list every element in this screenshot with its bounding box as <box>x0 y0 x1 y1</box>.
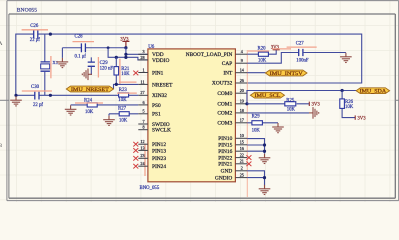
pin 16 PIN16 <box>218 146 247 155</box>
svg-text:10K: 10K <box>345 105 354 110</box>
svg-text:COM0: COM0 <box>217 91 232 97</box>
ground right-facing at COM2 <box>309 107 319 119</box>
power 3V3 right-facing at R26 <box>355 115 366 121</box>
pin 23 PIN23 no-connect <box>133 153 166 162</box>
pin 24 PIN24 no-connect <box>133 161 166 170</box>
power 3V3 left <box>120 38 129 48</box>
svg-text:PIN1: PIN1 <box>152 70 164 76</box>
svg-text:10K: 10K <box>287 108 296 113</box>
svg-text:1: 1 <box>143 67 145 72</box>
pin 6 PS0 <box>138 100 161 109</box>
svg-text:INT: INT <box>223 70 233 76</box>
svg-text:3V3: 3V3 <box>357 117 366 122</box>
svg-text:NRESET: NRESET <box>152 82 173 88</box>
wire INT to port <box>247 72 265 74</box>
svg-text:PIN16: PIN16 <box>218 149 232 155</box>
ground at GNDIO <box>259 185 271 195</box>
svg-text:NBOOT_LOAD_PIN: NBOOT_LOAD_PIN <box>186 52 233 58</box>
svg-text:120 nF: 120 nF <box>100 66 114 71</box>
svg-text:25: 25 <box>240 173 244 178</box>
capacitor C30 <box>31 85 43 108</box>
svg-text:PIN10: PIN10 <box>218 136 232 142</box>
svg-text:R27: R27 <box>118 107 127 112</box>
pin 2 GND <box>221 166 248 175</box>
junction VDDIO wire at 125.9 <box>124 56 127 59</box>
wire CAP to C27 <box>247 53 299 64</box>
capacitor C27 <box>296 41 309 63</box>
pin 4 NBOOT_LOAD_PIN <box>186 49 247 58</box>
svg-text:SWCLK: SWCLK <box>152 128 171 134</box>
pin 14 INT <box>223 68 247 77</box>
IC U6 body <box>140 45 236 191</box>
svg-text:XIN32: XIN32 <box>152 93 167 99</box>
pin 19 COM1 <box>217 99 247 108</box>
svg-text:GND: GND <box>221 169 233 175</box>
salmon mark C30 <box>22 90 52 92</box>
ground at R24 <box>65 105 77 115</box>
svg-text:0.1 μf: 0.1 μf <box>75 55 87 60</box>
svg-text:PIN13: PIN13 <box>152 148 166 154</box>
pin 20 COM0 <box>217 88 247 97</box>
svg-text:GNDIO: GNDIO <box>215 175 232 181</box>
salmon mark R20 <box>248 50 269 52</box>
svg-text:100nF: 100nF <box>296 58 309 63</box>
wire crystal riser from top rail <box>44 34 46 62</box>
salmon mark left pin column <box>144 144 146 176</box>
svg-text:PS0: PS0 <box>152 103 161 109</box>
wire PIN10 PIN15 PIN16 to ground <box>247 139 264 154</box>
svg-text:10K: 10K <box>252 129 261 134</box>
svg-text:10K: 10K <box>118 98 127 103</box>
wire crystal bottom lead <box>44 71 46 95</box>
svg-text:PIN23: PIN23 <box>152 156 166 162</box>
pin 18 COM2 <box>217 108 247 117</box>
svg-text:26: 26 <box>240 78 244 83</box>
salmon mark between R20 and C27 <box>272 48 291 50</box>
wire 3V3 rail (C28 to 3V3 symbol) <box>62 48 126 58</box>
pin 13 PIN13 no-connect <box>133 145 166 154</box>
pin 1 PIN1 no-connect <box>133 67 163 76</box>
svg-text:PIN12: PIN12 <box>152 142 166 148</box>
ground at PIN16 <box>259 154 271 164</box>
salmon mark R24 <box>75 102 103 104</box>
pin 7 SWDIO <box>138 119 169 128</box>
pin 17 COM3 <box>217 118 247 127</box>
resistor R20 <box>258 47 269 64</box>
svg-text:18: 18 <box>240 108 244 113</box>
svg-text:5: 5 <box>143 109 145 114</box>
svg-text:3V3: 3V3 <box>271 46 280 51</box>
svg-text:22 pf: 22 pf <box>33 103 43 108</box>
svg-text:12: 12 <box>140 139 144 144</box>
svg-text:PIN22: PIN22 <box>218 155 232 161</box>
svg-text:X1: X1 <box>52 60 58 65</box>
svg-text:13: 13 <box>140 145 144 150</box>
pin 12 PIN12 no-connect <box>133 139 166 148</box>
resistor R29 <box>252 115 263 134</box>
ground left-facing at C29 <box>82 69 92 81</box>
svg-text:R25: R25 <box>286 98 295 103</box>
salmon mark C26 <box>22 29 48 31</box>
junction GNDIO <box>263 176 266 179</box>
svg-text:20: 20 <box>240 88 244 93</box>
port IMU_INT5V <box>265 70 307 77</box>
svg-text:C27: C27 <box>296 41 305 46</box>
svg-text:C26: C26 <box>30 24 39 29</box>
crystal X1 <box>41 60 59 71</box>
pin 5 PS1 <box>138 109 161 118</box>
svg-text:21: 21 <box>240 159 244 164</box>
wire COM3 to R29 <box>247 122 278 124</box>
pin 11 NRESET <box>138 79 173 88</box>
wire PS0 <box>71 104 139 106</box>
ground below C28 <box>57 58 69 68</box>
svg-text:22 pf: 22 pf <box>30 38 40 43</box>
svg-text:COM3: COM3 <box>217 121 232 127</box>
junction NRESET R21 <box>115 83 118 86</box>
pin 9 CAP <box>222 58 247 67</box>
junction XIN32 ground tap <box>14 94 17 97</box>
junction 3V3 rail A <box>124 46 127 49</box>
wire NRESET <box>114 84 139 89</box>
svg-text:BNO055: BNO055 <box>17 8 37 14</box>
power 3V3 right-facing at R25 <box>309 102 320 108</box>
capacitor C28 <box>75 34 87 59</box>
svg-text:2: 2 <box>241 166 243 171</box>
svg-text:A: A <box>0 41 3 47</box>
junction PIN15 <box>263 143 266 146</box>
svg-text:CAP: CAP <box>222 61 233 67</box>
resistor R27 <box>118 107 129 124</box>
ground at C27 <box>340 53 352 63</box>
wire GND GNDIO to ground <box>247 171 264 185</box>
wire COM2 to ground <box>247 112 309 114</box>
wire VDDIO branch <box>108 48 148 60</box>
salmon mark above R23 <box>119 81 137 83</box>
wire NBOOT_LOAD_PIN to R20 <box>247 50 276 55</box>
salmon mark R21 <box>119 59 121 85</box>
svg-text:PS1: PS1 <box>152 112 161 118</box>
svg-text:27: 27 <box>140 90 144 95</box>
junction C26 right <box>49 33 52 36</box>
svg-text:15: 15 <box>240 140 244 145</box>
svg-text:COM2: COM2 <box>217 111 232 117</box>
resistor R23 <box>118 88 128 103</box>
svg-text:10K: 10K <box>121 72 130 77</box>
svg-text:9: 9 <box>241 58 243 63</box>
capacitor C26 <box>30 24 40 43</box>
salmon mark C28 <box>73 41 95 43</box>
svg-text:23: 23 <box>140 153 144 158</box>
svg-text:COM1: COM1 <box>217 102 232 108</box>
wire VDD to pin 3 <box>126 53 148 55</box>
power 3V3 at R20 <box>271 46 280 51</box>
svg-text:R29: R29 <box>252 115 261 120</box>
svg-text:XOUT32: XOUT32 <box>212 81 233 87</box>
pin 3 VDD <box>138 49 163 58</box>
salmon mark R23 <box>117 92 137 94</box>
junction COM1 <box>245 102 248 105</box>
svg-text:IMU_INT5V: IMU_INT5V <box>270 72 304 77</box>
pin 26 XOUT32 <box>212 78 247 87</box>
svg-text:11: 11 <box>141 79 145 84</box>
svg-text:10K: 10K <box>119 118 128 123</box>
resistor R24 <box>84 99 97 115</box>
svg-text:10K: 10K <box>85 110 94 115</box>
svg-text:C29: C29 <box>100 61 109 66</box>
pin 21 PIN21 no-connect <box>218 159 251 168</box>
svg-text:PIN24: PIN24 <box>152 164 166 170</box>
svg-text:3: 3 <box>143 49 145 54</box>
svg-text:3V3: 3V3 <box>312 103 321 108</box>
svg-text:VDDIO: VDDIO <box>152 58 169 64</box>
pin 8 SWCLK <box>138 125 171 134</box>
salmon mark C27 <box>287 46 317 48</box>
svg-text:PIN21: PIN21 <box>218 162 232 168</box>
capacitor C29 <box>88 57 114 74</box>
junction VDDIO wire at C29 <box>115 56 118 59</box>
junction VDD <box>124 53 127 56</box>
pin 28 VDDIO <box>138 55 169 64</box>
svg-text:7: 7 <box>143 119 145 124</box>
pin 25 GNDIO <box>215 173 247 182</box>
pin 27 XIN32 <box>138 90 167 99</box>
svg-text:19: 19 <box>240 99 244 104</box>
wire VDD drop <box>125 48 127 58</box>
pin 10 PIN10 <box>218 133 247 142</box>
svg-text:PIN15: PIN15 <box>218 143 232 149</box>
svg-text:6: 6 <box>143 100 145 105</box>
pin 22 PIN22 no-connect <box>218 153 251 162</box>
junction crystal bottom <box>49 94 52 97</box>
resistor R26 <box>340 91 355 118</box>
ground at XIN32 left <box>10 96 22 106</box>
wire XIN32/XOUT32 top loop: left vertical, top rail, right vertical down to pin 26 <box>16 34 362 95</box>
svg-text:8: 8 <box>143 125 145 130</box>
wire COM1 riser to SDA line <box>247 91 356 104</box>
svg-text:IMU_SCL: IMU_SCL <box>255 94 281 99</box>
salmon mark right pin column <box>246 50 248 197</box>
svg-text:3V3: 3V3 <box>120 38 129 43</box>
svg-text:22: 22 <box>240 153 244 158</box>
ground at R29 <box>272 123 284 133</box>
svg-text:IMU_SDA: IMU_SDA <box>360 90 387 95</box>
port IMU_NRESET <box>66 86 113 93</box>
svg-text:C30: C30 <box>31 85 40 90</box>
wire COM1 to R25 <box>247 103 309 105</box>
port IMU_SDA <box>356 88 390 95</box>
salmon mark C29 <box>97 57 99 78</box>
junction PIN16 <box>263 150 266 153</box>
resistor R25 <box>285 98 296 112</box>
svg-text:10: 10 <box>240 133 244 138</box>
wire C27 to ground <box>303 52 346 54</box>
salmon mark X1 <box>50 56 52 78</box>
junction SDA at R26 <box>341 89 344 92</box>
svg-text:28: 28 <box>140 55 144 60</box>
ground at R27 <box>108 114 110 116</box>
wire PS1 <box>109 113 138 115</box>
svg-text:IMU_NRESET: IMU_NRESET <box>71 88 109 93</box>
svg-text:16: 16 <box>240 146 244 151</box>
wire XIN32 net horizontal <box>16 94 139 96</box>
resistor R21 <box>114 57 130 84</box>
svg-text:BNO_055: BNO_055 <box>140 186 160 191</box>
svg-text:C28: C28 <box>75 34 84 39</box>
junction rail riser <box>107 46 110 49</box>
svg-text:17: 17 <box>240 118 244 123</box>
pin 15 PIN15 <box>218 140 247 149</box>
svg-text:U6: U6 <box>148 45 155 50</box>
port IMU_SCL <box>250 92 284 99</box>
